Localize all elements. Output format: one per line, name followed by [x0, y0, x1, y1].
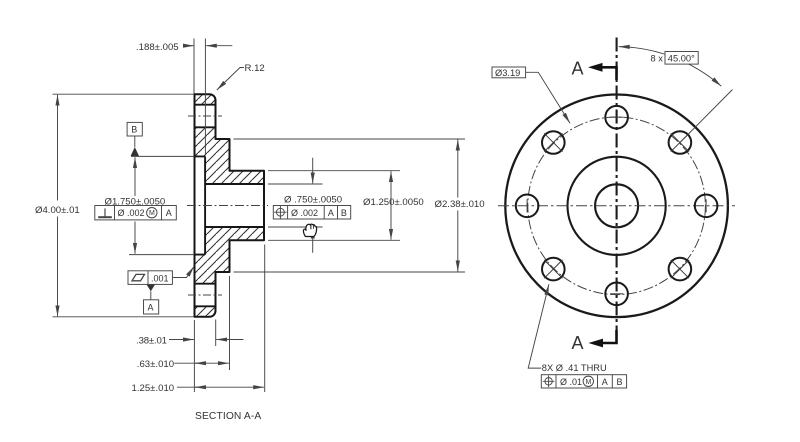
svg-text:A: A [148, 303, 154, 313]
svg-text:Ø .01: Ø .01 [560, 377, 582, 387]
bolt hole 225deg [542, 258, 565, 281]
datum A flag [147, 285, 155, 292]
counterbore edges [195, 156, 206, 254]
svg-text:B: B [131, 125, 137, 135]
top bolt hole centerline [188, 115, 222, 117]
dimension .38±.01 [169, 339, 243, 341]
counterbore circle Ø1.750 [568, 157, 666, 255]
bottom extension lines [194, 245, 264, 393]
bolt hole callout leader [528, 284, 549, 368]
bottom bolt hole centerline [188, 294, 222, 296]
svg-text:.38±.01: .38±.01 [136, 335, 167, 346]
hatched cut region lower web and hub [195, 227, 265, 284]
svg-text:M: M [586, 379, 592, 386]
outer circle Ø4.00 [505, 95, 728, 318]
svg-text:R.12: R.12 [245, 63, 265, 74]
bolt hole 0deg [695, 195, 718, 218]
svg-text:Ø .002: Ø .002 [118, 208, 145, 218]
svg-text:M: M [149, 210, 155, 217]
svg-text:A: A [328, 208, 334, 218]
svg-text:.188±.005: .188±.005 [136, 42, 179, 53]
section arrow top [602, 67, 617, 80]
feature control frame perpendicularity Ø.002 M A [95, 206, 177, 220]
dimension Ø.750±.0050 [268, 158, 323, 253]
svg-text:A: A [572, 333, 584, 353]
svg-text:8 x: 8 x [651, 53, 664, 63]
bolt hole 135deg [542, 131, 565, 154]
svg-text:8X Ø .41 THRU: 8X Ø .41 THRU [542, 363, 607, 373]
svg-text:Ø1.250±.0050: Ø1.250±.0050 [363, 197, 424, 208]
svg-text:Ø .750±.0050: Ø .750±.0050 [284, 195, 342, 206]
bolt hole 45deg [669, 131, 692, 154]
section arrow bottom [602, 330, 617, 343]
bolt hole 315deg [669, 258, 692, 281]
bore edges [205, 184, 264, 227]
bore circle Ø.750 [595, 184, 638, 227]
dimension .63±.010 [174, 362, 229, 364]
flatness leader to left face [173, 266, 194, 277]
flange section outline [195, 94, 265, 317]
svg-text:1.25±.010: 1.25±.010 [132, 383, 175, 394]
radial line at 45deg to bolt hole [681, 90, 733, 142]
hatched cut region lower rim [195, 306, 216, 317]
datum B flag [127, 122, 142, 136]
dimension 1.25±.010 [177, 386, 264, 388]
svg-text:Ø3.19: Ø3.19 [495, 68, 520, 78]
svg-text:A: A [602, 377, 608, 387]
feature control frame position Ø.01 M A B [541, 375, 626, 388]
bolt hole 180deg [516, 195, 539, 218]
bolt hole 270deg [605, 283, 628, 306]
dimension .188±.005 [183, 39, 232, 156]
angle dimension 8 x 45.00 [619, 47, 722, 87]
dimension Ø1.750±.0050 [129, 156, 194, 254]
svg-text:Ø4.00±.01: Ø4.00±.01 [35, 205, 80, 216]
svg-text:B: B [617, 377, 623, 387]
top bolt hole edges [195, 105, 216, 128]
svg-text:Ø .002: Ø .002 [291, 208, 318, 218]
hand cursor [303, 224, 316, 236]
bolt hole 90deg [605, 106, 628, 129]
dimension Ø1.250±.0050 [268, 171, 400, 241]
section line A-A vertical [616, 38, 618, 331]
bolt circle Ø3.19 centerline [528, 117, 706, 295]
bottom bolt hole edges [195, 284, 216, 307]
svg-text:A: A [166, 208, 172, 218]
main axis centerline [187, 205, 268, 207]
svg-text:SECTION A-A: SECTION A-A [195, 411, 261, 422]
hatched cut region upper rim [195, 94, 216, 105]
feature control frame position Ø.002 A B [273, 206, 350, 220]
svg-text:.63±.010: .63±.010 [137, 359, 174, 370]
boxed dimension Ø3.19 with leader [492, 67, 526, 78]
radius callout R.12 [217, 68, 244, 91]
svg-text:45.00°: 45.00° [668, 53, 695, 63]
horizontal centerline [498, 205, 735, 207]
svg-text:.001: .001 [151, 273, 169, 283]
dimension Ø2.38±.010 [234, 139, 466, 272]
dimension Ø4.00±.01 [53, 94, 194, 317]
svg-text:A: A [572, 58, 584, 78]
flatness feature control frame .001 [128, 271, 172, 285]
svg-text:B: B [341, 208, 347, 218]
svg-text:Ø2.38±.010: Ø2.38±.010 [435, 199, 485, 210]
hatched cut region upper web and hub [195, 127, 265, 184]
